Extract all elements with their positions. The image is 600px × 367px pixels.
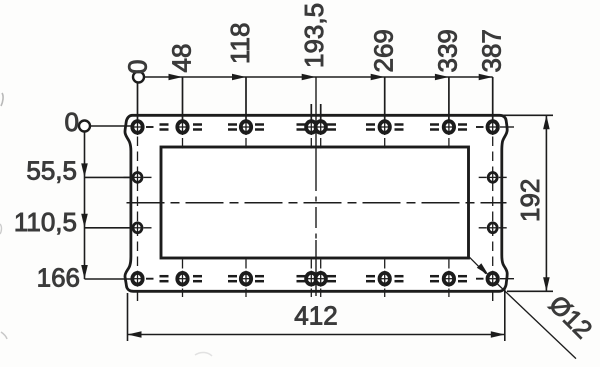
svg-text:166: 166 (37, 263, 80, 293)
svg-text:387: 387 (477, 29, 507, 72)
svg-text:269: 269 (369, 29, 399, 72)
svg-text:0: 0 (65, 107, 79, 137)
svg-text:0: 0 (122, 60, 152, 74)
svg-text:55,5: 55,5 (26, 156, 77, 186)
svg-text:192: 192 (515, 179, 545, 222)
svg-text:110,5: 110,5 (14, 207, 77, 237)
svg-text:193,5: 193,5 (299, 3, 329, 68)
svg-text:48: 48 (166, 44, 196, 73)
svg-text:118: 118 (225, 23, 255, 64)
svg-text:412: 412 (294, 301, 337, 331)
svg-text:339: 339 (433, 29, 463, 72)
